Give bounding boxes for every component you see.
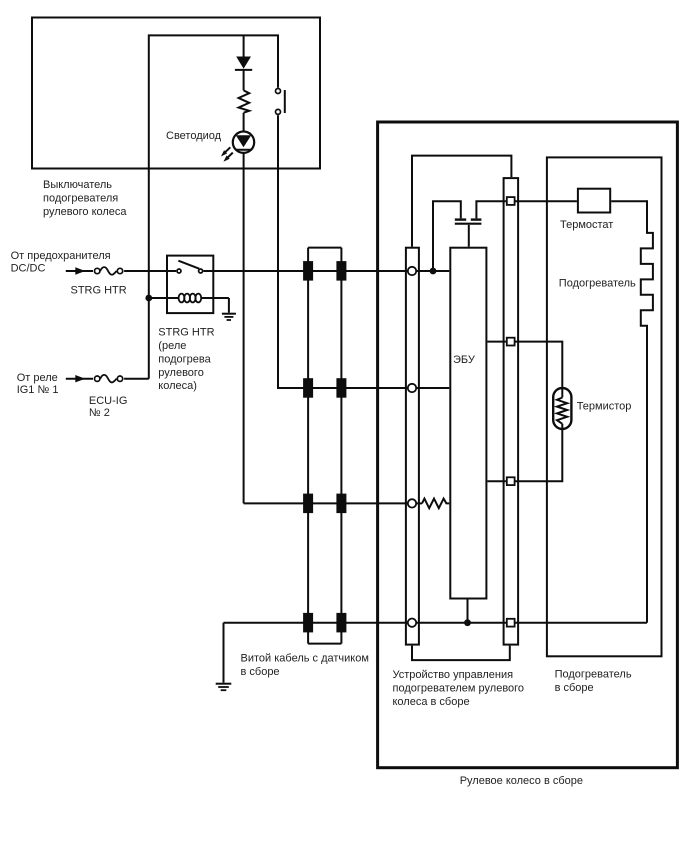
LED indicator	[221, 132, 254, 162]
svg-text:Витой кабель с датчиком: Витой кабель с датчиком	[241, 653, 369, 665]
svg-text:рулевого колеса: рулевого колеса	[43, 206, 127, 218]
pin circle 3	[408, 499, 416, 507]
node coil junction	[145, 295, 152, 302]
ground spiral cable	[216, 623, 232, 691]
node from relay IG1 label	[17, 372, 59, 396]
capacitor C1	[455, 218, 466, 220]
svg-text:Устройство управления: Устройство управления	[393, 669, 514, 681]
fuse STRG HTR	[95, 267, 123, 275]
svg-text:колеса): колеса)	[158, 380, 197, 392]
svg-text:№ 2: № 2	[89, 407, 110, 419]
spiral cable bottom link	[308, 643, 341, 645]
wire ECU to square pin2	[487, 341, 506, 343]
svg-text:рулевого: рулевого	[158, 367, 204, 379]
wire LED branch down	[243, 153, 245, 503]
svg-text:в сборе: в сборе	[555, 682, 594, 694]
svg-text:(реле: (реле	[158, 340, 186, 352]
connector blocks row 1	[303, 261, 346, 281]
heater assembly box	[547, 157, 662, 656]
switch assembly box	[32, 18, 320, 169]
wire relay to connector (B+)	[214, 270, 407, 272]
connector strip 2	[504, 178, 518, 644]
square pin 3	[507, 477, 515, 485]
svg-text:Рулевое колесо в сборе: Рулевое колесо в сборе	[460, 775, 583, 787]
pin circle 2	[408, 384, 416, 392]
svg-text:в сборе: в сборе	[241, 666, 280, 678]
steering wheel assembly box	[378, 122, 678, 768]
svg-text:Выключатель: Выключатель	[43, 179, 112, 191]
wire B+ into ECU	[417, 270, 450, 272]
wire square pin2 to thermistor	[516, 342, 563, 388]
wire strip bottom link	[412, 646, 510, 661]
svg-text:Светодиод: Светодиод	[166, 130, 222, 142]
wire square pin3 to ECU	[487, 480, 506, 482]
control device label	[393, 669, 525, 708]
pin circle 1	[408, 267, 416, 275]
relay label	[158, 327, 214, 393]
svg-text:Подогреватель: Подогреватель	[559, 278, 636, 290]
connector blocks row 3	[303, 494, 346, 513]
arrow feed 2	[66, 375, 93, 382]
connector blocks row 4	[303, 613, 346, 633]
square pin 2	[507, 338, 515, 346]
thermistor	[553, 388, 571, 430]
wire thermistor to square pin3	[516, 429, 563, 481]
ground relay coil	[222, 298, 236, 320]
wire ECU bottom lead	[467, 599, 469, 623]
fuse label	[89, 395, 128, 419]
spiral cable top link	[308, 247, 341, 249]
wire cap branch	[433, 201, 461, 271]
heater element	[641, 200, 653, 623]
svg-text:STRG HTR: STRG HTR	[71, 285, 127, 297]
spiral cable column 2	[340, 248, 342, 644]
square pin 1	[507, 197, 515, 205]
wire	[243, 70, 245, 90]
wire fuse to relay	[124, 270, 166, 272]
wire switch branch down	[278, 115, 407, 388]
wire w2 into ECU	[417, 387, 450, 389]
node from DC/DC fuse label	[11, 250, 111, 275]
wire strip top link	[412, 156, 511, 247]
svg-text:STRG HTR: STRG HTR	[158, 327, 214, 339]
thermostat box	[578, 189, 610, 213]
relay coil	[149, 294, 229, 303]
wire top inner frame	[149, 35, 278, 378]
svg-text:От реле: От реле	[17, 372, 58, 384]
svg-text:колеса в сборе: колеса в сборе	[393, 696, 470, 708]
switch S1	[276, 89, 285, 115]
svg-text:подогревателем рулевого: подогревателем рулевого	[393, 683, 525, 695]
spiral cable label	[241, 653, 369, 678]
wire cap2 to square pin	[476, 201, 506, 218]
svg-text:подогрева: подогрева	[158, 353, 211, 365]
wire ground return	[224, 622, 408, 624]
relay switch contacts	[166, 261, 214, 273]
resistor R1	[239, 90, 250, 112]
pin circle 4	[408, 619, 416, 627]
svg-text:ECU-IG: ECU-IG	[89, 395, 128, 407]
capacitor common plate	[455, 223, 482, 225]
fuse ECU-IG No2	[95, 375, 123, 383]
resistor R2	[422, 499, 449, 509]
wire diode branch	[243, 35, 245, 57]
wire	[243, 113, 245, 131]
connector strip 1	[406, 248, 419, 645]
svg-text:ЭБУ: ЭБУ	[453, 354, 476, 366]
square pin 4	[507, 619, 515, 627]
wire w4 pin to heater	[417, 622, 647, 624]
connector blocks row 2	[303, 378, 346, 398]
svg-text:От предохранителя: От предохранителя	[11, 250, 111, 262]
svg-text:DC/DC: DC/DC	[11, 263, 46, 275]
arrow feed 1	[66, 267, 93, 274]
wire fuse2 to vertical	[124, 378, 149, 380]
wire common plate to ECU	[468, 225, 470, 247]
svg-text:Термистор: Термистор	[577, 401, 632, 413]
wire thermostat to heater	[611, 200, 647, 202]
ECU box	[450, 248, 486, 599]
heater assembly label	[555, 669, 632, 694]
svg-text:подогревателя: подогревателя	[43, 193, 118, 205]
node B+ junction	[430, 268, 437, 275]
svg-text:Термостат: Термостат	[560, 219, 613, 231]
wire w3 pin to resistor	[417, 502, 422, 504]
relay STRG HTR box	[167, 256, 213, 314]
svg-text:Подогреватель: Подогреватель	[555, 669, 632, 681]
diode D1	[235, 57, 252, 70]
capacitor C2	[471, 218, 482, 220]
switch assembly label	[43, 179, 127, 218]
node ECU ground junction	[464, 619, 471, 626]
svg-text:IG1 № 1: IG1 № 1	[17, 384, 59, 396]
wire square pin1 to thermostat	[516, 200, 577, 202]
wire w3 LED return	[244, 502, 408, 504]
spiral cable column 1	[307, 248, 309, 644]
